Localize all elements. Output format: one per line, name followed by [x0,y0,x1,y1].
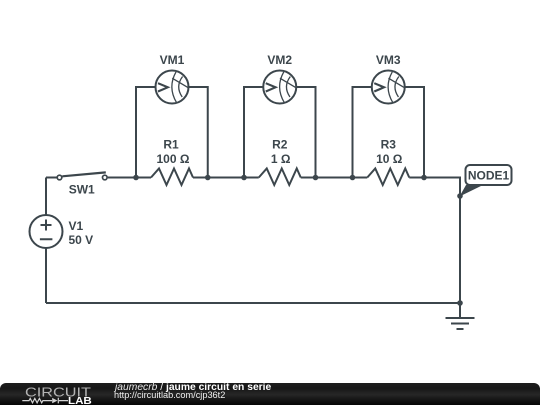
svg-text:VM3: VM3 [376,53,401,67]
svg-text:VM2: VM2 [267,53,292,67]
svg-text:LAB: LAB [68,396,92,405]
svg-text:V1: V1 [69,219,84,233]
svg-text:NODE1: NODE1 [468,169,510,183]
svg-text:R3: R3 [381,138,397,152]
svg-text:1 Ω: 1 Ω [271,152,291,166]
svg-text:SW1: SW1 [69,183,95,197]
svg-text:10 Ω: 10 Ω [376,152,403,166]
svg-text:100 Ω: 100 Ω [157,152,190,166]
svg-text:VM1: VM1 [160,53,185,67]
svg-text:R1: R1 [163,138,179,152]
svg-text:R2: R2 [272,138,288,152]
svg-text:50 V: 50 V [69,233,94,247]
